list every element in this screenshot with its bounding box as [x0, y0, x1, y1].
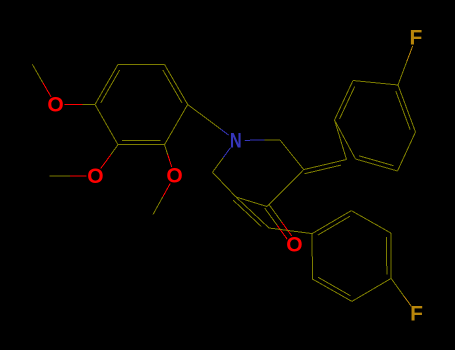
- ringA edge 1: [335, 81, 354, 121]
- ringA edge 2: [335, 120, 356, 159]
- ringB inner line: [318, 216, 350, 235]
- C5=CH2 second: [233, 200, 261, 226]
- svg-text:F: F: [409, 27, 422, 50]
- N-C2 bond: [265, 139, 281, 141]
- bond C-O1: [82, 104, 95, 106]
- ringB edge 3: [312, 211, 351, 234]
- C3=CH1 second: [305, 165, 341, 174]
- aryl-N bond: [188, 105, 221, 129]
- ringB inner line: [318, 277, 350, 295]
- svg-text:O: O: [286, 234, 302, 257]
- bond C-O2: [111, 145, 118, 155]
- ringB edge 5: [390, 233, 392, 278]
- ringB edge 2: [311, 234, 313, 279]
- C5=CH2 main: [236, 197, 269, 228]
- ringA edge 4: [398, 132, 416, 171]
- trimethoxyphenyl ring edge 1: [118, 63, 165, 65]
- methyl2-O2 bond: [49, 175, 70, 177]
- trimethoxyphenyl ring edge 3: [165, 105, 188, 145]
- ringA edge 0: [353, 81, 398, 86]
- C3=CH1 main: [304, 160, 347, 170]
- C-F top bond: [398, 61, 407, 85]
- ring1 inner aromatic line: [122, 140, 160, 142]
- ringA edge 3: [356, 159, 398, 171]
- CH1-ringA: [335, 120, 347, 160]
- C2-C3: [280, 140, 304, 170]
- methyl1-O1 bond: [32, 64, 42, 82]
- ringB inner line: [386, 237, 388, 274]
- trimethoxyphenyl ring edge 4: [118, 144, 165, 146]
- ringB edge 4: [351, 211, 391, 233]
- svg-text:F: F: [410, 303, 423, 326]
- trimethoxyphenyl ring edge 2: [165, 64, 188, 104]
- C5-C6: [213, 172, 237, 197]
- svg-text:O: O: [47, 94, 63, 117]
- ringA edge 5: [398, 85, 416, 132]
- CH2-ringB: [269, 228, 312, 234]
- ringA inner line: [396, 91, 410, 130]
- N-C6 bond: [213, 158, 224, 172]
- bond C-O3: [165, 145, 168, 155]
- trimethoxyphenyl ring edge 0: [95, 64, 118, 104]
- ring1 inner aromatic line: [101, 70, 120, 103]
- ring1 inner aromatic line: [163, 70, 182, 103]
- C4=O line b: [269, 205, 281, 222]
- ringA inner line: [340, 87, 355, 119]
- svg-text:N: N: [230, 130, 242, 153]
- C4-C5: [236, 197, 267, 207]
- ringB edge 0: [352, 278, 391, 301]
- methyl3-O3 bond: [153, 197, 163, 215]
- trimethoxyphenyl ring edge 5: [95, 105, 118, 145]
- ringA inner line: [359, 156, 393, 166]
- svg-text:O: O: [87, 165, 103, 188]
- C3-C4: [267, 170, 304, 207]
- C-F bottom bond: [391, 278, 404, 296]
- svg-text:O: O: [166, 165, 182, 188]
- C4=O line a: [265, 208, 277, 225]
- ringB edge 1: [312, 279, 352, 301]
